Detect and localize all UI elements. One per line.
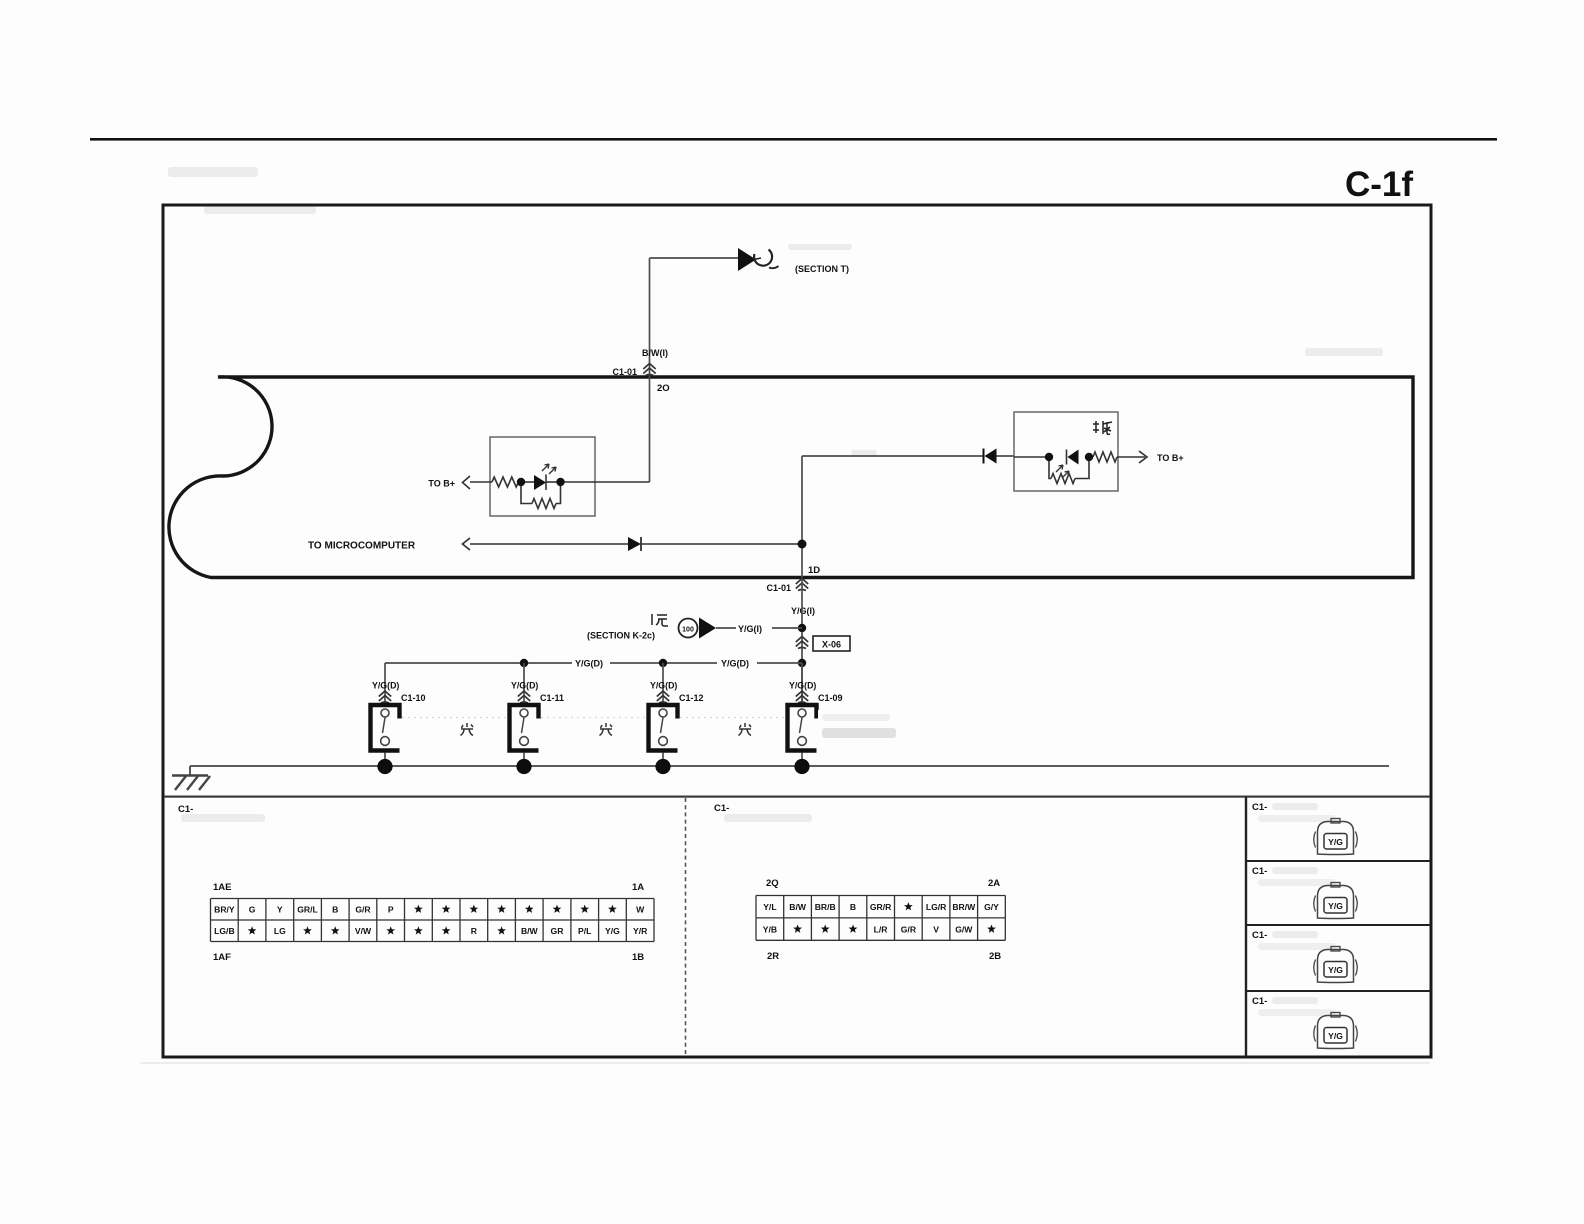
svg-text:TO B+: TO B+ bbox=[428, 479, 455, 489]
svg-text:Y/G(D): Y/G(D) bbox=[721, 659, 749, 669]
svg-text:C1-01: C1-01 bbox=[612, 367, 637, 377]
svg-text:Y: Y bbox=[277, 905, 283, 915]
svg-text:GR/R: GR/R bbox=[870, 902, 892, 912]
svg-text:C1-: C1- bbox=[178, 804, 193, 815]
svg-text:B/W: B/W bbox=[789, 902, 807, 912]
svg-text:G/R: G/R bbox=[355, 905, 371, 915]
svg-text:GR: GR bbox=[551, 926, 565, 936]
svg-text:C1-01: C1-01 bbox=[766, 583, 791, 593]
svg-text:C1-: C1- bbox=[1252, 866, 1267, 877]
svg-text:BR/W: BR/W bbox=[952, 902, 976, 912]
svg-text:P/L: P/L bbox=[578, 926, 591, 936]
svg-text:TO B+: TO B+ bbox=[1157, 453, 1184, 463]
svg-text:1D: 1D bbox=[808, 565, 820, 576]
svg-text:B/W: B/W bbox=[521, 926, 539, 936]
svg-text:2B: 2B bbox=[989, 951, 1001, 962]
svg-text:C1-: C1- bbox=[714, 803, 729, 814]
svg-text:2A: 2A bbox=[988, 878, 1000, 889]
svg-text:Y/G(I): Y/G(I) bbox=[791, 606, 815, 616]
svg-text:BR/B: BR/B bbox=[815, 902, 836, 912]
svg-text:C1-11: C1-11 bbox=[540, 693, 564, 703]
svg-text:B: B bbox=[850, 902, 856, 912]
svg-text:C1-12: C1-12 bbox=[679, 693, 704, 703]
svg-text:1B: 1B bbox=[632, 952, 644, 963]
svg-text:R: R bbox=[471, 926, 478, 936]
svg-text:LG/B: LG/B bbox=[214, 926, 235, 936]
svg-text:(SECTION K-2c): (SECTION K-2c) bbox=[587, 631, 655, 641]
svg-text:C1-09: C1-09 bbox=[818, 693, 843, 703]
svg-text:(SECTION T): (SECTION T) bbox=[795, 264, 849, 274]
svg-text:2Q: 2Q bbox=[766, 878, 779, 889]
svg-text:Y/G(D): Y/G(D) bbox=[575, 659, 603, 669]
svg-text:C1-: C1- bbox=[1252, 930, 1267, 941]
svg-text:C-1f: C-1f bbox=[1345, 165, 1413, 204]
svg-text:C1-10: C1-10 bbox=[401, 693, 426, 703]
svg-text:V/W: V/W bbox=[355, 926, 372, 936]
svg-text:LG/R: LG/R bbox=[926, 902, 947, 912]
svg-text:Y/G(D): Y/G(D) bbox=[511, 681, 538, 691]
svg-text:Y/L: Y/L bbox=[763, 902, 776, 912]
svg-text:B: B bbox=[332, 905, 338, 915]
svg-text:W: W bbox=[636, 905, 645, 915]
svg-text:Y/G: Y/G bbox=[605, 926, 620, 936]
svg-text:Y/G(D): Y/G(D) bbox=[650, 681, 677, 691]
svg-text:GR/L: GR/L bbox=[297, 905, 318, 915]
svg-text:P: P bbox=[388, 905, 394, 915]
svg-text:X-06: X-06 bbox=[822, 640, 841, 650]
svg-text:C1-: C1- bbox=[1252, 802, 1267, 813]
svg-text:BR/Y: BR/Y bbox=[214, 905, 235, 915]
svg-text:G/W: G/W bbox=[955, 924, 973, 934]
svg-text:LG: LG bbox=[274, 926, 286, 936]
svg-text:L/R: L/R bbox=[874, 924, 889, 934]
svg-text:Y/B: Y/B bbox=[763, 924, 777, 934]
svg-text:100: 100 bbox=[682, 627, 694, 634]
svg-text:Y/G(D): Y/G(D) bbox=[789, 681, 816, 691]
svg-text:G/Y: G/Y bbox=[984, 902, 999, 912]
svg-text:B/W(I): B/W(I) bbox=[642, 348, 668, 358]
svg-text:2R: 2R bbox=[767, 951, 779, 962]
svg-text:1AE: 1AE bbox=[213, 882, 231, 893]
svg-text:G: G bbox=[249, 905, 256, 915]
svg-text:G/R: G/R bbox=[901, 924, 917, 934]
svg-text:Y/G(I): Y/G(I) bbox=[738, 624, 762, 634]
svg-text:Y/G(D): Y/G(D) bbox=[372, 681, 399, 691]
svg-text:Y/R: Y/R bbox=[633, 926, 648, 936]
svg-text:V: V bbox=[933, 924, 939, 934]
svg-text:2O: 2O bbox=[657, 383, 670, 394]
svg-text:1A: 1A bbox=[632, 882, 644, 893]
svg-text:1AF: 1AF bbox=[213, 952, 231, 963]
svg-text:TO MICROCOMPUTER: TO MICROCOMPUTER bbox=[308, 541, 416, 552]
svg-text:C1-: C1- bbox=[1252, 996, 1267, 1007]
